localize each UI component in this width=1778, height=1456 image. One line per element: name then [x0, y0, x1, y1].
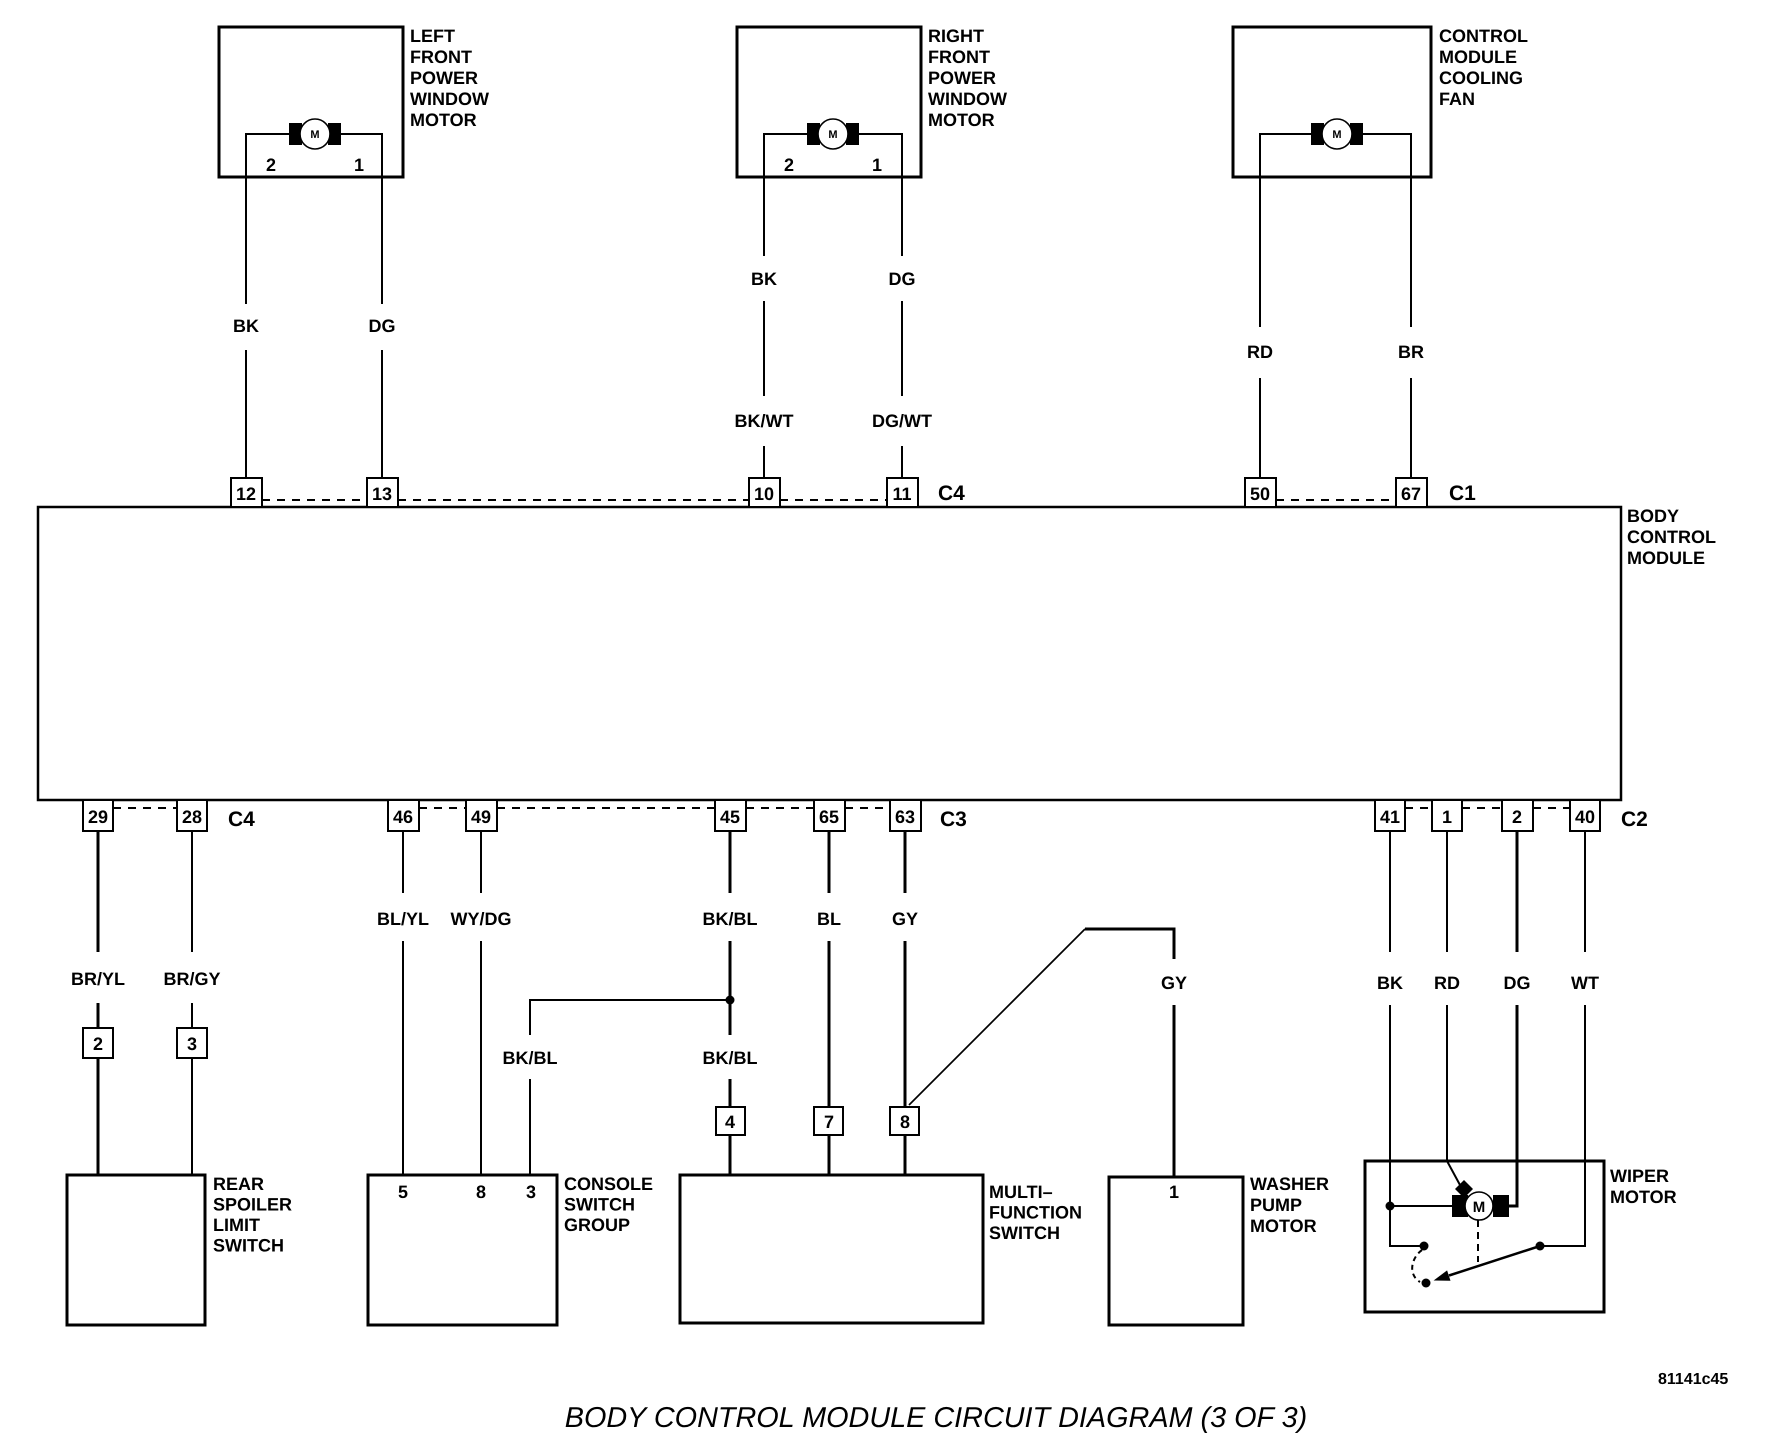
- svg-text:GY: GY: [1161, 973, 1187, 993]
- svg-text:3: 3: [526, 1182, 536, 1202]
- wire branch to console pin 3 (BK/BL): [530, 1000, 730, 1175]
- svg-text:1: 1: [1169, 1182, 1179, 1202]
- svg-text:8: 8: [476, 1182, 486, 1202]
- wire (dashed connector line 10-11): [780, 499, 887, 501]
- svg-text:13: 13: [372, 484, 392, 504]
- svg-text:C4: C4: [938, 482, 965, 505]
- node (park switch left contact): [1420, 1242, 1429, 1251]
- wire BCM 29 to spoiler switch pin 2 (BR/YL): [97, 831, 100, 1175]
- svg-text:LIMIT: LIMIT: [213, 1215, 260, 1235]
- multi-function switch box: [680, 1175, 1082, 1323]
- svg-text:COOLING: COOLING: [1439, 68, 1523, 88]
- wire RF motor pin1 to BCM 11 (DG/DG-WT): [859, 134, 902, 478]
- console switch group box: [368, 1174, 653, 1325]
- wire (GY horizontal and down): [1085, 929, 1174, 1177]
- pin 3 (rear spoiler limit switch): [177, 1028, 207, 1058]
- wire BCM 1 to wiper motor (RD): [1447, 831, 1460, 1185]
- svg-text:2: 2: [266, 155, 276, 175]
- body control module box: [38, 506, 1716, 800]
- svg-text:67: 67: [1401, 484, 1421, 504]
- control module cooling fan box: [1233, 26, 1528, 177]
- wire BCM 63 to multifunction pin 8 (GY): [904, 831, 907, 1175]
- svg-text:8: 8: [900, 1112, 910, 1132]
- wire multifunction pin 8 to washer pump (GY diagonal): [909, 929, 1085, 1105]
- svg-text:M: M: [828, 129, 837, 141]
- wire (dashed connector line 65-63): [845, 807, 890, 809]
- svg-text:46: 46: [393, 807, 413, 827]
- svg-text:WINDOW: WINDOW: [410, 89, 489, 109]
- svg-text:M: M: [1473, 1199, 1486, 1216]
- svg-text:50: 50: [1250, 484, 1270, 504]
- svg-text:RD: RD: [1434, 973, 1460, 993]
- connector pin 12: [231, 478, 262, 507]
- svg-text:2: 2: [784, 155, 794, 175]
- svg-text:SWITCH: SWITCH: [989, 1223, 1060, 1243]
- connector pin 65: [814, 800, 845, 831]
- svg-text:CONTROL: CONTROL: [1627, 527, 1716, 547]
- svg-text:BK: BK: [751, 269, 777, 289]
- svg-text:BK/BL: BK/BL: [503, 1048, 558, 1068]
- svg-text:CONSOLE: CONSOLE: [564, 1174, 653, 1194]
- svg-text:MOTOR: MOTOR: [928, 110, 995, 130]
- wire BCM 41 to wiper motor (BK): [1389, 831, 1391, 1246]
- node (RD feed diamond): [1455, 1180, 1473, 1198]
- wire BCM 46 to console pin 5 (BL/YL): [402, 831, 404, 1175]
- svg-text:DG: DG: [369, 316, 396, 336]
- wire (dashed connector line 13-10): [398, 499, 749, 501]
- connector pin 11: [887, 478, 918, 507]
- wire (BK down to park contact): [1390, 1206, 1424, 1246]
- svg-text:FRONT: FRONT: [410, 47, 472, 67]
- connector pin 46: [388, 800, 419, 831]
- svg-text:POWER: POWER: [928, 68, 996, 88]
- connector pin 49: [466, 800, 497, 831]
- svg-text:1: 1: [872, 155, 882, 175]
- svg-text:28: 28: [182, 807, 202, 827]
- svg-text:BK/BL: BK/BL: [703, 909, 758, 929]
- svg-text:BR: BR: [1398, 342, 1424, 362]
- svg-text:2: 2: [93, 1034, 103, 1054]
- svg-text:11: 11: [892, 484, 911, 504]
- wire (dashed connector line 41-1): [1405, 807, 1432, 809]
- svg-text:4: 4: [725, 1112, 735, 1132]
- svg-text:RD: RD: [1247, 342, 1273, 362]
- svg-text:81141c45: 81141c45: [1658, 1371, 1728, 1388]
- svg-text:BL/YL: BL/YL: [377, 909, 429, 929]
- rear spoiler limit switch box: [67, 1174, 292, 1325]
- svg-text:FRONT: FRONT: [928, 47, 990, 67]
- svg-text:DG/WT: DG/WT: [872, 411, 932, 431]
- svg-text:DG: DG: [889, 269, 916, 289]
- wire LF motor pin1 to BCM 13 (DG): [341, 134, 382, 478]
- connector pin 1: [1432, 800, 1462, 831]
- svg-text:BK/WT: BK/WT: [735, 411, 794, 431]
- svg-text:WY/DG: WY/DG: [451, 909, 512, 929]
- svg-text:5: 5: [398, 1182, 408, 1202]
- svg-text:65: 65: [819, 807, 839, 827]
- svg-text:3: 3: [187, 1034, 197, 1054]
- svg-text:BODY: BODY: [1627, 506, 1679, 526]
- pin 8 (multi-function switch): [890, 1107, 919, 1135]
- svg-text:REAR: REAR: [213, 1174, 264, 1194]
- svg-text:MODULE: MODULE: [1439, 47, 1517, 67]
- svg-text:7: 7: [824, 1112, 834, 1132]
- svg-text:BK/BL: BK/BL: [703, 1048, 758, 1068]
- connector pin 10: [749, 478, 780, 507]
- pin 4 (multi-function switch): [716, 1107, 745, 1135]
- wire RF motor pin2 to BCM 10 (BK/BK-WT): [764, 134, 807, 478]
- svg-text:PUMP: PUMP: [1250, 1195, 1302, 1215]
- connector pin 40: [1570, 800, 1600, 831]
- svg-text:M: M: [1332, 129, 1341, 141]
- svg-text:MOTOR: MOTOR: [410, 110, 477, 130]
- svg-text:10: 10: [754, 484, 774, 504]
- svg-text:GROUP: GROUP: [564, 1215, 630, 1235]
- washer pump motor box: [1109, 1174, 1329, 1325]
- pin 2 (rear spoiler limit switch): [83, 1028, 113, 1058]
- svg-text:RIGHT: RIGHT: [928, 26, 984, 46]
- svg-text:1: 1: [1442, 807, 1452, 827]
- connector pin 41: [1375, 800, 1405, 831]
- wire (dashed connector line 2-40): [1533, 807, 1570, 809]
- wire (dashed connector line 29-28): [113, 807, 177, 809]
- svg-text:MULTI–: MULTI–: [989, 1182, 1053, 1202]
- wire fan right to BCM 67 (BR): [1363, 134, 1411, 478]
- svg-text:SWITCH: SWITCH: [564, 1195, 635, 1215]
- pin 7 (multi-function switch): [814, 1107, 843, 1135]
- svg-text:MOTOR: MOTOR: [1250, 1216, 1317, 1236]
- wire (dashed connector line 46-49): [419, 807, 466, 809]
- wire (dashed connector line 50-67): [1276, 499, 1396, 501]
- wire BCM 2 to wiper motor (DG): [1508, 831, 1517, 1206]
- wire (dashed wiper arc): [1412, 1250, 1422, 1282]
- wire BCM 65 to multifunction pin 7 (BL): [828, 831, 831, 1175]
- svg-text:C3: C3: [940, 808, 967, 831]
- svg-text:63: 63: [895, 807, 915, 827]
- svg-text:BODY CONTROL MODULE CIRCUIT DI: BODY CONTROL MODULE CIRCUIT DIAGRAM (3 O…: [565, 1402, 1307, 1434]
- svg-text:FUNCTION: FUNCTION: [989, 1203, 1082, 1223]
- wire BCM 28 to spoiler switch pin 3 (BR/GY): [191, 831, 193, 1175]
- svg-text:WIPER: WIPER: [1610, 1166, 1669, 1186]
- wire (dashed connector line 49-45): [497, 807, 715, 809]
- svg-text:40: 40: [1575, 807, 1595, 827]
- wire LF motor pin2 to BCM 12 (BK): [246, 134, 289, 478]
- svg-text:MOTOR: MOTOR: [1610, 1187, 1677, 1207]
- svg-text:45: 45: [720, 807, 740, 827]
- wire BCM 49 to console pin 8 (WY/DG): [480, 831, 482, 1175]
- svg-text:BR/GY: BR/GY: [163, 969, 220, 989]
- svg-text:2: 2: [1512, 807, 1522, 827]
- wiper motor box: [1365, 1161, 1677, 1312]
- node (park switch common): [1422, 1279, 1431, 1288]
- svg-text:M: M: [310, 129, 319, 141]
- connector pin 45: [715, 800, 746, 831]
- connector pin 67: [1396, 478, 1427, 507]
- wire (dashed motor link): [1477, 1220, 1479, 1262]
- svg-text:BK: BK: [1377, 973, 1403, 993]
- svg-text:BL: BL: [817, 909, 841, 929]
- svg-text:LEFT: LEFT: [410, 26, 455, 46]
- svg-text:BR/YL: BR/YL: [71, 969, 125, 989]
- motor M (left front window): [289, 119, 341, 149]
- wire fan left to BCM 50 (RD): [1260, 134, 1311, 478]
- svg-text:SPOILER: SPOILER: [213, 1195, 292, 1215]
- svg-text:POWER: POWER: [410, 68, 478, 88]
- svg-text:C1: C1: [1449, 482, 1476, 505]
- connector pin 63: [890, 800, 921, 831]
- svg-text:BK: BK: [233, 316, 259, 336]
- connector pin 28: [177, 800, 207, 831]
- svg-text:DG: DG: [1504, 973, 1531, 993]
- svg-text:GY: GY: [892, 909, 918, 929]
- wire (dashed connector line 1-2): [1462, 807, 1502, 809]
- svg-text:WINDOW: WINDOW: [928, 89, 1007, 109]
- svg-text:C2: C2: [1621, 808, 1648, 831]
- wire (dashed connector line 45-65): [746, 807, 814, 809]
- connector pin 29: [83, 800, 113, 831]
- svg-text:1: 1: [354, 155, 364, 175]
- right front power window motor box: [737, 26, 1007, 177]
- svg-text:CONTROL: CONTROL: [1439, 26, 1528, 46]
- svg-text:MODULE: MODULE: [1627, 548, 1705, 568]
- connector pin 50: [1245, 478, 1276, 507]
- left front power window motor box: [219, 26, 489, 177]
- motor M (right front window): [807, 119, 859, 149]
- node (park switch right contact): [1536, 1242, 1545, 1251]
- svg-text:FAN: FAN: [1439, 89, 1475, 109]
- connector pin 2: [1502, 800, 1533, 831]
- svg-text:WASHER: WASHER: [1250, 1174, 1329, 1194]
- svg-text:41: 41: [1380, 807, 1400, 827]
- svg-text:49: 49: [471, 807, 491, 827]
- junction (BK/BL splice): [726, 996, 735, 1005]
- wire (switch blade with arrow): [1449, 1246, 1540, 1276]
- wire BCM 40 to wiper motor (WT): [1540, 831, 1585, 1246]
- svg-text:12: 12: [236, 484, 256, 504]
- motor M (cooling fan): [1311, 119, 1363, 149]
- svg-text:WT: WT: [1571, 973, 1599, 993]
- wire (dashed connector line 12-13): [262, 499, 367, 501]
- connector pin 13: [367, 478, 398, 507]
- wire BCM 45 to multifunction pin 4 (BK/BL): [729, 831, 732, 1175]
- junction (BK node): [1386, 1202, 1395, 1211]
- svg-text:C4: C4: [228, 808, 255, 831]
- wire (BK to motor left brush): [1390, 1205, 1452, 1207]
- svg-text:29: 29: [88, 807, 108, 827]
- svg-text:SWITCH: SWITCH: [213, 1236, 284, 1256]
- motor M (wiper): [1452, 1192, 1509, 1220]
